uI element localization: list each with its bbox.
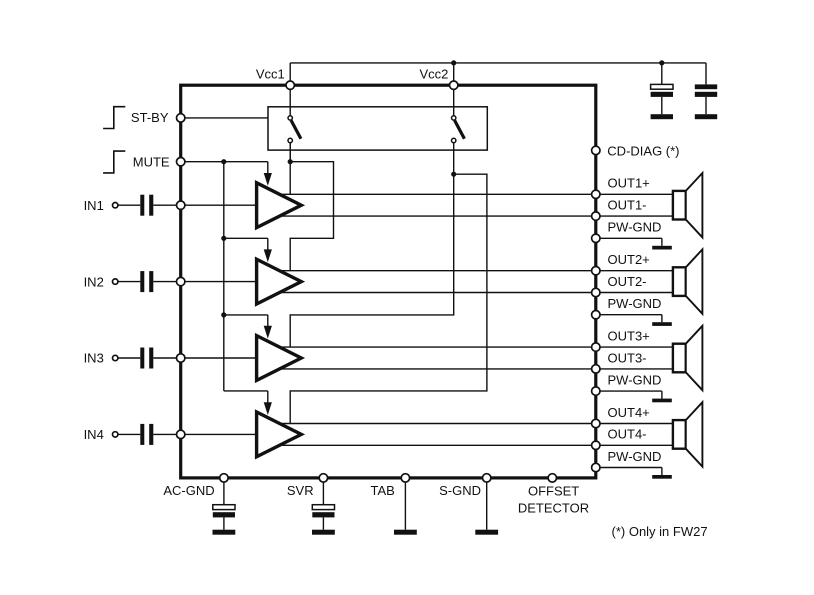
svg-text:IN2: IN2 <box>84 274 104 289</box>
svg-text:OFFSET: OFFSET <box>528 483 579 498</box>
svg-text:PW-GND: PW-GND <box>608 449 662 464</box>
svg-text:OUT1+: OUT1+ <box>608 176 650 191</box>
svg-text:OUT2+: OUT2+ <box>608 252 650 267</box>
svg-text:IN1: IN1 <box>84 198 104 213</box>
svg-text:TAB: TAB <box>370 483 394 498</box>
svg-text:IN4: IN4 <box>84 427 104 442</box>
svg-text:OUT2-: OUT2- <box>608 274 647 289</box>
svg-text:PW-GND: PW-GND <box>608 373 662 388</box>
svg-text:S-GND: S-GND <box>439 483 481 498</box>
svg-text:CD-DIAG (*): CD-DIAG (*) <box>607 143 679 158</box>
svg-text:SVR: SVR <box>287 483 314 498</box>
svg-text:MUTE: MUTE <box>133 155 170 170</box>
svg-text:Vcc1: Vcc1 <box>256 66 285 81</box>
svg-text:ST-BY: ST-BY <box>131 110 169 125</box>
svg-text:DETECTOR: DETECTOR <box>518 500 589 515</box>
svg-text:OUT3+: OUT3+ <box>608 329 650 344</box>
svg-text:OUT3-: OUT3- <box>608 350 647 365</box>
svg-text:(*) Only in FW27: (*) Only in FW27 <box>612 524 708 539</box>
svg-text:OUT4+: OUT4+ <box>608 405 650 420</box>
svg-text:OUT4-: OUT4- <box>608 427 647 442</box>
svg-text:Vcc2: Vcc2 <box>419 66 448 81</box>
svg-text:AC-GND: AC-GND <box>163 483 214 498</box>
svg-text:IN3: IN3 <box>84 351 104 366</box>
svg-text:PW-GND: PW-GND <box>608 220 662 235</box>
svg-text:OUT1-: OUT1- <box>608 198 647 213</box>
svg-text:PW-GND: PW-GND <box>608 296 662 311</box>
